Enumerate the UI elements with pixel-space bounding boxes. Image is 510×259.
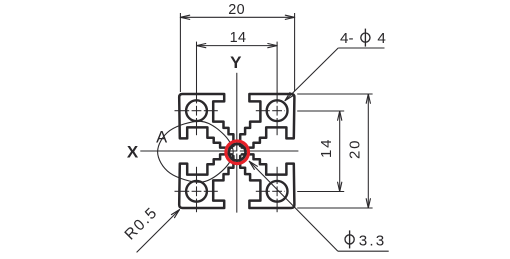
wire hole centerlines BR (276, 167, 278, 184)
svg-text:4-: 4- (340, 30, 354, 47)
node Y axis centerline (236, 73, 238, 213)
svg-text:3.3: 3.3 (359, 233, 387, 250)
label 4-phi4 leader (338, 47, 384, 49)
svg-text:14: 14 (230, 30, 247, 46)
dim 14 vertical right (297, 110, 344, 112)
extrusion profile outline (179, 94, 294, 208)
hole 4-phi4 TR (267, 100, 288, 121)
dim 14 horizontal top (197, 45, 278, 47)
node X axis centerline (140, 150, 298, 152)
hole 4-phi4 TL (186, 100, 207, 121)
label phi3.3 leader (338, 250, 389, 252)
svg-text:20: 20 (228, 2, 245, 18)
svg-text:A: A (156, 128, 167, 146)
dim 20 horizontal top (179, 13, 181, 92)
svg-text:14: 14 (318, 138, 335, 158)
wire hole centerlines TL (196, 42, 198, 104)
node detail circle A (158, 121, 234, 182)
red highlight ring center hole (226, 141, 249, 164)
hole 4-phi4 BL (186, 181, 207, 202)
hole 4-phi4 BR (267, 181, 288, 202)
label R0.5 leader (137, 210, 180, 253)
svg-text:X: X (127, 142, 139, 161)
center hole phi3.3 (229, 144, 246, 161)
svg-text:4: 4 (377, 30, 385, 47)
svg-text:20: 20 (346, 139, 363, 159)
wire hole centerlines TR (276, 42, 278, 104)
svg-text:Y: Y (230, 53, 242, 72)
dim 20 vertical right (297, 93, 372, 95)
wire hole centerlines BL (196, 167, 198, 184)
